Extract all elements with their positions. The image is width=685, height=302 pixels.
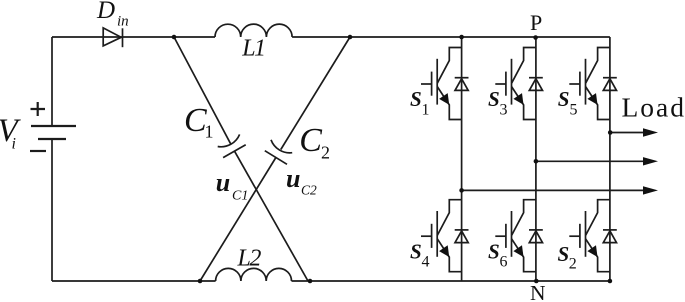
svg-text:S: S: [410, 239, 422, 263]
wire: inverter leg 2: [535, 37, 537, 281]
label uC2: [286, 164, 317, 197]
node: top-right of X network: [348, 35, 353, 40]
svg-text:L2: L2: [237, 246, 262, 272]
wire: bottom rail left segment: [52, 280, 216, 282]
label Din: [96, 0, 129, 30]
svg-text:S: S: [558, 242, 570, 266]
node: bottom-left of X network: [198, 279, 203, 284]
wire: battery bottom lead down to bottom rail: [51, 139, 53, 281]
node: leg1 top rail: [459, 35, 464, 40]
label C1: [184, 102, 214, 142]
node: leg1 phase output: [459, 188, 464, 193]
node: leg3 phase output: [608, 130, 613, 135]
svg-text:i: i: [12, 136, 16, 153]
svg-text:L1: L1: [241, 35, 264, 61]
svg-text:S: S: [488, 239, 500, 263]
svg-text:u: u: [216, 168, 230, 197]
battery source Vi: [30, 102, 76, 151]
wire: phase output from leg 2: [536, 160, 649, 162]
antiparallel diode of S3: [529, 78, 543, 91]
wire: phase output from leg 1: [462, 189, 649, 191]
node: leg2 phase output: [534, 159, 539, 164]
wire: phase output from leg 3: [610, 132, 649, 134]
wire: diagonal B upper (node TR to capacitor C2): [281, 37, 350, 150]
svg-text:1: 1: [205, 122, 214, 142]
svg-text:C2: C2: [301, 182, 317, 197]
wire: top rail from L1 to right end: [292, 36, 610, 38]
node P junction: [533, 35, 538, 40]
svg-text:2: 2: [569, 255, 577, 272]
label Vi: [0, 113, 22, 153]
node N junction: [534, 279, 539, 284]
wire: bottom rail right segment: [292, 280, 610, 282]
igbt S3: [495, 48, 536, 120]
wire: inverter leg 1: [461, 37, 463, 281]
arrow: phase output 2: [643, 157, 658, 165]
wire: inverter leg 3: [609, 37, 611, 281]
label S3: [488, 87, 508, 118]
svg-text:S: S: [488, 87, 500, 111]
antiparallel diode of S1: [455, 78, 469, 91]
arrow: phase output 1: [643, 128, 658, 136]
node: top-left of X network: [172, 35, 177, 40]
diode Din: [103, 28, 122, 47]
label S5: [558, 87, 578, 119]
igbt S5: [569, 48, 610, 120]
svg-text:u: u: [286, 164, 300, 193]
igbt S4: [421, 200, 462, 272]
svg-text:Load: Load: [622, 92, 685, 123]
wire: diagonal A upper (node TL to capacitor C1): [174, 37, 231, 144]
igbt S1: [421, 48, 462, 120]
svg-text:3: 3: [500, 101, 508, 118]
arrow: phase output 3: [643, 186, 658, 194]
inductor L2: [216, 268, 292, 281]
svg-text:C1: C1: [232, 189, 248, 204]
svg-text:C: C: [299, 122, 322, 159]
label S4: [410, 239, 430, 270]
node: bottom-right of X network: [308, 279, 313, 284]
label C2: [299, 122, 330, 163]
wire: diagonal B lower (C2 to node BL): [200, 158, 276, 282]
antiparallel diode of S5: [603, 78, 617, 91]
svg-text:D: D: [96, 0, 115, 24]
svg-text:2: 2: [321, 143, 330, 163]
svg-text:1: 1: [422, 101, 430, 118]
svg-text:4: 4: [422, 253, 430, 270]
antiparallel diode of S2: [603, 230, 617, 243]
antiparallel diode of S4: [455, 230, 469, 243]
svg-text:5: 5: [570, 101, 578, 118]
svg-text:N: N: [530, 281, 546, 302]
svg-text:6: 6: [500, 253, 508, 270]
wire: battery top lead up to top rail: [51, 37, 53, 126]
igbt S2: [569, 200, 610, 272]
label S1: [410, 87, 430, 118]
svg-text:S: S: [558, 87, 570, 111]
svg-text:P: P: [530, 10, 542, 35]
igbt S6: [495, 200, 536, 272]
label S2: [558, 242, 577, 272]
wire: top rail left segment (battery to L1): [52, 36, 215, 38]
wire: diagonal A lower (C1 to node BR): [235, 151, 308, 281]
node: leg3 bottom rail: [608, 279, 613, 284]
label S6: [488, 239, 508, 270]
capacitor C1: [218, 134, 246, 157]
inductor L1: [215, 24, 292, 37]
label uC1: [216, 168, 249, 204]
capacitor C2: [265, 140, 292, 165]
svg-text:in: in: [117, 14, 129, 30]
svg-text:S: S: [410, 87, 422, 111]
antiparallel diode of S6: [529, 230, 543, 243]
